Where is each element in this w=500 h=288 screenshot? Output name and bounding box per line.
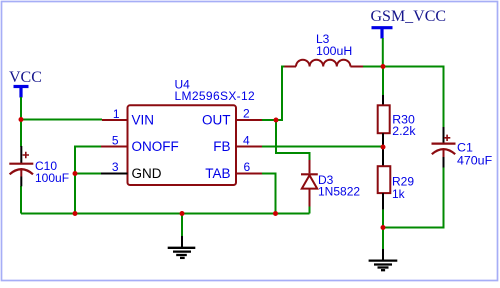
svg-text:FB: FB <box>213 139 230 154</box>
svg-text:OUT: OUT <box>202 113 231 128</box>
ground (right) <box>369 228 398 271</box>
pin 6 TAB <box>205 160 262 181</box>
wire node to pin1 <box>21 119 102 121</box>
IC U4 LM2596SX-12 body <box>128 77 256 185</box>
node VCC junction <box>19 117 24 122</box>
wire C10 bottom to rail <box>20 186 22 214</box>
svg-text:TAB: TAB <box>205 166 230 181</box>
node left rail junction <box>73 211 78 216</box>
wire C1 bottom to ground node <box>383 168 444 228</box>
node GSM_VCC junction <box>381 64 386 69</box>
pin 3 GND <box>101 160 162 181</box>
svg-text:470uF: 470uF <box>457 153 493 167</box>
pin 5 ONOFF <box>101 134 179 155</box>
svg-text:VCC: VCC <box>9 69 42 86</box>
wire OUT to junction and up <box>262 67 285 121</box>
wire TAB down to bottom rail <box>262 174 276 214</box>
power port VCC <box>9 69 42 98</box>
wire node to pin3 <box>75 173 101 175</box>
capacitor C10 <box>9 146 69 186</box>
svg-text:GSM_VCC: GSM_VCC <box>371 8 447 25</box>
node right ground junction <box>381 225 386 230</box>
svg-text:4: 4 <box>243 133 250 147</box>
node ONOFF/GND junction <box>73 171 78 176</box>
capacitor C1 <box>432 127 493 168</box>
resistor R30 <box>378 95 417 147</box>
diode D3 <box>276 120 360 214</box>
svg-text:100uF: 100uF <box>35 171 69 185</box>
wire VCC node down to C10 <box>20 120 22 147</box>
wire GSM node to C1 top <box>383 67 444 128</box>
wire GSM stem <box>382 38 384 67</box>
svg-text:1N5822: 1N5822 <box>318 185 360 199</box>
wire R29 to ground node <box>382 210 384 228</box>
svg-text:2: 2 <box>243 107 250 121</box>
ground (middle) <box>168 214 196 258</box>
wire pin5 to left column <box>75 147 101 214</box>
svg-text:3: 3 <box>112 160 119 174</box>
wire bottom rail <box>21 213 310 215</box>
node OUT junction <box>274 118 279 123</box>
node middle ground junction <box>180 211 185 216</box>
wire inductor to GSM node <box>363 66 383 68</box>
svg-text:ONOFF: ONOFF <box>132 139 179 154</box>
svg-text:2.2k: 2.2k <box>392 124 416 138</box>
svg-text:GND: GND <box>132 166 162 181</box>
svg-text:1k: 1k <box>392 187 406 201</box>
svg-text:LM2596SX-12: LM2596SX-12 <box>175 89 256 103</box>
wire FB to R30/R29 node <box>262 146 383 148</box>
power port GSM_VCC <box>371 8 447 38</box>
svg-text:1: 1 <box>113 107 120 121</box>
pin 2 OUT <box>202 107 262 128</box>
node TAB rail junction <box>273 211 278 216</box>
svg-text:6: 6 <box>244 160 251 174</box>
pin 1 VIN <box>102 107 154 128</box>
svg-text:C1: C1 <box>457 140 473 154</box>
pin 4 FB <box>213 133 262 154</box>
svg-text:VIN: VIN <box>132 113 155 128</box>
resistor R29 <box>378 147 415 210</box>
svg-text:5: 5 <box>112 134 119 148</box>
inductor L3 <box>284 32 363 67</box>
svg-text:100uH: 100uH <box>316 44 352 58</box>
wire VCC stem to node <box>20 97 22 120</box>
wire GSM node down to R30 <box>382 67 384 96</box>
node FB junction <box>381 145 386 150</box>
